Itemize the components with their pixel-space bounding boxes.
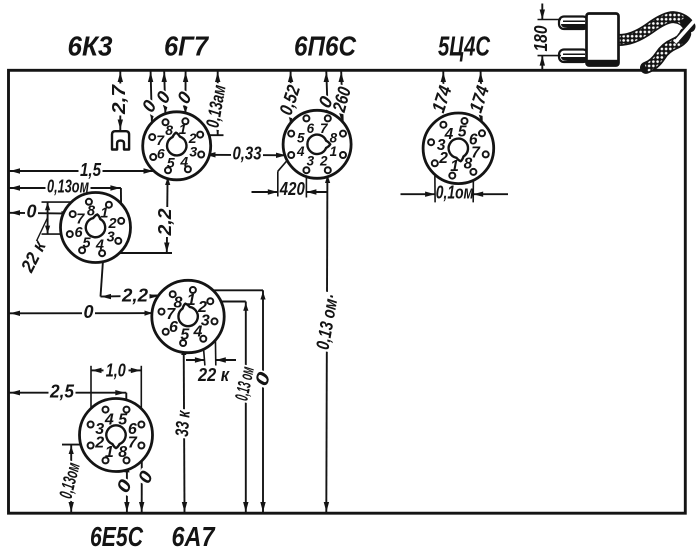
wire: 6Е5С pin8 down to bottom border, value 0 — [111, 463, 136, 512]
power cord braided upper segment — [616, 17, 690, 40]
svg-text:1: 1 — [187, 292, 196, 309]
tube socket 6А7: pin 7 — [159, 309, 165, 315]
svg-text:1: 1 — [100, 205, 108, 221]
tube socket 6К3: pin 2 — [118, 218, 124, 224]
tube socket 6Г7: pin 1 — [182, 118, 188, 124]
wire: measure line 6П6С pin5 to top border, value 0,52 — [274, 72, 304, 131]
tube socket 6Г7: outer circle — [143, 112, 211, 180]
wire: measure line left border to 6К3 pin7, value 0 — [10, 200, 70, 221]
svg-text:3: 3 — [107, 230, 115, 246]
svg-text:8: 8 — [87, 204, 96, 220]
wire: measure line 5Ц4С pin4 to top border, value 174 — [427, 72, 456, 123]
tube socket 6Е5С: center key hole — [106, 425, 125, 448]
tube socket 6К3: pin 4 — [99, 250, 105, 256]
plug body — [587, 14, 619, 66]
svg-text:0: 0 — [27, 200, 38, 221]
svg-text:3: 3 — [189, 144, 197, 160]
svg-text:4: 4 — [95, 238, 104, 254]
wire: 6А7 pin1 wire right then down to bottom border, value 0 — [196, 290, 275, 512]
svg-text:2: 2 — [319, 153, 328, 168]
tube socket 6К3: pin 3 — [115, 238, 121, 244]
tube socket 6А7: pin 3 — [212, 318, 218, 324]
tube socket 5Ц4С: center key hole — [449, 139, 468, 162]
tube socket 6К3: pin 5 — [79, 247, 85, 253]
wire: measure line 6Г7 pin5 down to 6К3 pin4 line, value 2,2 — [154, 173, 175, 253]
wire: measure line 6П6С pin8 to top border, value 260 — [328, 72, 356, 131]
tube socket 5Ц4С: pin 6 — [479, 130, 485, 136]
svg-text:1: 1 — [330, 144, 338, 159]
svg-text:5: 5 — [83, 236, 92, 252]
grid-cap clip symbol — [112, 131, 129, 149]
wire: measure line from 6К3 pin4 wire to 6А7 pin8, value 2,2 — [101, 284, 171, 305]
tube socket 6Е5С: pin 8 — [124, 457, 130, 463]
svg-text:0: 0 — [84, 301, 95, 322]
svg-text:7: 7 — [128, 434, 138, 451]
svg-text:2,2: 2,2 — [121, 284, 149, 305]
svg-text:2,2: 2,2 — [154, 208, 175, 237]
wire: 6К3 pin4 wire down to 6А7 2,2 line — [101, 256, 104, 296]
tube socket 6А7: outer circle — [152, 280, 224, 352]
wire: extension line from 6Г7 pin2 + dimension 0,13ам to top border — [201, 72, 230, 136]
svg-text:22 к: 22 к — [197, 364, 230, 385]
wire: measure line left border to 6Е5С pin5 riser, value 2,5 — [10, 380, 127, 406]
tube socket 6Г7: pin 4 — [185, 166, 191, 172]
svg-text:8: 8 — [118, 444, 127, 461]
svg-text:1: 1 — [179, 121, 187, 137]
svg-text:8: 8 — [174, 295, 183, 312]
wire: measure line 6А7 pin5 down to bottom border, value 33 к — [171, 346, 194, 512]
svg-text:3: 3 — [307, 153, 315, 168]
svg-text:6Е5С: 6Е5С — [90, 521, 144, 552]
tube socket 6Г7: pin 8 — [163, 119, 169, 125]
wire: measure line left border to 6А7 pin7, value 0 — [10, 301, 159, 322]
power cord cut gap between segments — [681, 18, 693, 30]
svg-text:5: 5 — [180, 326, 190, 343]
tube socket 6Е5С: pin 6 — [138, 422, 144, 428]
tube socket 6Г7: pin 7 — [149, 134, 155, 140]
tube socket 6А7: pin 6 — [163, 329, 169, 335]
svg-text:2,5: 2,5 — [49, 380, 75, 401]
tube socket 6А7: center key hole — [178, 304, 197, 326]
tube socket 6К3: pin 6 — [67, 231, 73, 237]
tube socket 6Г7: center key hole — [167, 133, 186, 156]
wire: 6Е5С pin7 down to bottom border, value 0 — [133, 449, 158, 513]
svg-text:1,0: 1,0 — [106, 359, 127, 380]
wire: 6А7 pin2 wire right then down to bottom border, value 0,13 ом — [213, 302, 258, 513]
tube socket 6Е5С: pin 2 — [88, 443, 94, 449]
tube socket 5Ц4С: pin 3 — [428, 139, 434, 145]
tube socket 6К3: pin 8 — [86, 199, 92, 205]
wire: dimension 180 at plug prongs — [530, 4, 561, 72]
tube socket 5Ц4С: pin 2 — [432, 160, 438, 166]
wire: measure line 5Ц4С pin6 to top border, value 174 — [464, 72, 493, 132]
tube socket 6П6С: pin 5 — [288, 131, 294, 137]
svg-text:5: 5 — [458, 124, 467, 141]
tube socket 5Ц4С: pin 5 — [462, 118, 468, 124]
svg-text:33 к: 33 к — [171, 409, 194, 438]
tube socket 6П6С: pin 2 — [325, 167, 331, 173]
tube socket 6К3: pin 7 — [70, 211, 76, 217]
svg-text:4: 4 — [193, 324, 203, 341]
svg-text:4: 4 — [179, 154, 188, 170]
svg-text:5: 5 — [118, 411, 128, 428]
wire: extension lines + dimension 1,0 above 6Е5С (pins 3,6) — [91, 359, 141, 421]
tube socket 5Ц4С: pin 4 — [440, 122, 446, 128]
tube socket 6Е5С: pin 4 — [103, 407, 109, 413]
wire: measure line 6П6С pin2 down to bottom border, value 0,13 ом — [311, 173, 342, 512]
plug prong upper — [559, 17, 588, 30]
svg-text:7: 7 — [76, 212, 85, 228]
tube socket 6П6С: pin 8 — [340, 131, 346, 137]
tube socket 6П6С: pin 1 — [340, 152, 346, 158]
tube socket 6К3: center key hole — [86, 215, 105, 238]
chassis outline rectangle — [9, 70, 686, 513]
svg-text:8: 8 — [165, 122, 173, 138]
tube socket 5Ц4С: pin 8 — [470, 169, 476, 175]
svg-text:8: 8 — [330, 130, 338, 145]
tube socket 6Е5С: outer circle — [80, 399, 153, 472]
tube socket 5Ц4С: pin 7 — [483, 151, 489, 157]
svg-text:420: 420 — [279, 178, 305, 199]
tube socket 6А7: pin 2 — [207, 298, 213, 304]
tube socket 6П6С: pin 3 — [303, 167, 309, 173]
tube socket 5Ц4С: pin 1 — [449, 173, 455, 179]
wire: extension lines + dimension 0,1ом under 5Ц4С (pins 2,8) — [401, 166, 509, 202]
wire: extension lines + dimension 22 к at 6К3 (pins 8,6) with leader — [16, 202, 86, 276]
wire: extension lines + dimension 420 under 6П6С (pins 4,3) — [252, 158, 327, 199]
svg-text:0,33: 0,33 — [233, 142, 263, 163]
tube socket 6П6С: center key hole — [307, 135, 330, 154]
tube socket 6А7: pin 1 — [190, 287, 196, 293]
tube socket 6А7: pin 5 — [180, 340, 186, 346]
tube socket 6Г7: pin 3 — [198, 152, 204, 158]
tube socket 6П6С: pin 7 — [325, 115, 331, 121]
tube socket 6Г7: pin 5 — [165, 167, 171, 173]
svg-text:8: 8 — [464, 156, 473, 173]
tube socket 6Е5С: pin 7 — [138, 443, 144, 449]
wire: 6К3 pin4 horizontal wire to 2,2 arrow junction — [104, 252, 172, 254]
wire: measure line 6П6С pin7 to top border, value 0 — [313, 72, 338, 116]
tube socket 6П6С: outer circle — [283, 110, 351, 178]
tube socket 6А7: pin 4 — [200, 336, 206, 342]
wire: measure line left border to 6К3 pin2 extension, value 0,13ом — [10, 175, 122, 218]
svg-text:5: 5 — [297, 130, 305, 145]
tube socket 6Е5С: pin 5 — [124, 407, 130, 413]
svg-text:1: 1 — [105, 444, 114, 461]
svg-text:5: 5 — [167, 154, 175, 170]
wire: measure line 6Г7 pin1 to top border, value 0 — [172, 72, 197, 119]
tube socket 5Ц4С: outer circle — [423, 113, 494, 184]
plug prong lower — [559, 50, 588, 63]
svg-text:6К3: 6К3 — [68, 31, 113, 62]
svg-text:6: 6 — [307, 121, 315, 136]
svg-text:4: 4 — [296, 144, 305, 159]
svg-text:3: 3 — [95, 421, 104, 438]
svg-text:2,7: 2,7 — [108, 83, 129, 115]
svg-text:1: 1 — [450, 158, 459, 175]
tube socket 6П6С: pin 4 — [288, 152, 294, 158]
svg-text:5Ц4С: 5Ц4С — [438, 31, 491, 62]
wire: extension lines + dimension 22 к under 6А7 (pins 4,3) — [186, 324, 236, 385]
wire: measure line 6Г7 pin7 to top border, value 0 — [136, 72, 161, 135]
svg-text:4: 4 — [444, 126, 454, 143]
wire: measure line 6Г7 pin8 to top border, value 0 — [151, 72, 176, 120]
wire: 6Е5С pin2 wire left then down to bottom border, value 0,13ом — [54, 445, 87, 512]
tube socket 6А7: pin 8 — [170, 291, 176, 297]
wire: measure line top border to grid-cap clip, value 2,7 — [108, 72, 129, 131]
svg-text:0,1ом: 0,1ом — [436, 182, 474, 203]
svg-text:7: 7 — [471, 145, 481, 162]
power cord braided lower segment — [646, 34, 685, 68]
tube socket 6Г7: pin 2 — [197, 132, 203, 138]
tube socket 6Е5С: pin 3 — [88, 422, 94, 428]
svg-text:6А7: 6А7 — [172, 521, 216, 552]
tube socket 6Е5С: pin 1 — [103, 457, 109, 463]
tube socket 6Г7: pin 6 — [150, 154, 156, 160]
wire: measure line left border to 6Г7 socket rim, value 1,5 — [10, 159, 154, 180]
tube socket 6К3: pin 1 — [106, 202, 112, 208]
svg-text:6Г7: 6Г7 — [164, 31, 209, 62]
tube socket 6П6С: pin 6 — [303, 115, 309, 121]
tube socket 6К3: outer circle — [61, 193, 131, 263]
wire: measure line between 6Г7 pin3 and 6П6С pin4, value 0,33 — [205, 142, 289, 163]
svg-text:4: 4 — [104, 411, 114, 428]
svg-text:180: 180 — [530, 25, 551, 52]
svg-text:7: 7 — [156, 132, 165, 148]
svg-text:6П6С: 6П6С — [294, 31, 357, 62]
svg-text:0,13ом: 0,13ом — [47, 175, 89, 196]
